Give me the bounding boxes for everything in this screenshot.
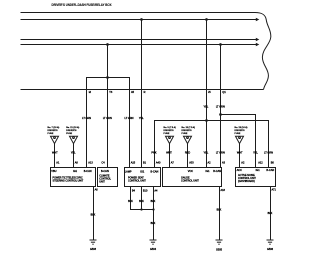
- svg-text:DRIVER'S UNDER–DASH FUSE/RELAY: DRIVER'S UNDER–DASH FUSE/RELAY BOX: [52, 2, 112, 7]
- fuse No.23 power source symbol: [235, 126, 248, 167]
- wire V4 LT GRN from bus4 to climate control unit: [107, 45, 109, 168]
- svg-text:STEERING CONTROL UNIT: STEERING CONTROL UNIT: [53, 179, 84, 182]
- svg-text:BLK: BLK: [217, 209, 222, 212]
- svg-text:VBU: VBU: [51, 170, 56, 173]
- svg-text:A13: A13: [88, 161, 93, 164]
- svg-text:WHT: WHT: [237, 151, 243, 154]
- svg-text:IG1: IG1: [140, 170, 145, 173]
- svg-text:No. 21 (10 A): No. 21 (10 A): [66, 126, 79, 129]
- node junction ground bus A4: [152, 208, 154, 210]
- wire ground column 1 from steering unit: [93, 187, 95, 240]
- wire branch from V2 at y121 to power seat pin and active noise unit: [155, 121, 269, 168]
- svg-text:FUSE: FUSE: [164, 133, 170, 135]
- wire ground column 4 from active noise unit: [270, 187, 272, 240]
- box U3 power seat control unit: [125, 168, 161, 187]
- box U2 climate control unit: [98, 168, 118, 187]
- svg-text:A33: A33: [189, 161, 194, 164]
- svg-text:LAMP: LAMP: [125, 170, 132, 173]
- wire bus 3: [21, 39, 257, 41]
- svg-text:LT GRN: LT GRN: [103, 117, 112, 120]
- svg-text:A40: A40: [156, 161, 161, 164]
- svg-text:FUSE: FUSE: [48, 133, 54, 135]
- svg-text:LT GRN: LT GRN: [125, 117, 134, 120]
- ground G504 symbol: [150, 240, 157, 244]
- svg-text:BLK: BLK: [128, 200, 133, 203]
- wire ground column 2 from power seat unit: [131, 187, 154, 240]
- svg-text:A71: A71: [272, 189, 277, 192]
- svg-text:No. 7 (10 A): No. 7 (10 A): [48, 126, 60, 129]
- svg-text:FUSE: FUSE: [235, 133, 241, 135]
- box U4 gauge control unit: [163, 168, 222, 187]
- wire V2 YEL from bus2 to gauge control unit: [206, 20, 208, 168]
- svg-text:YEL: YEL: [253, 151, 258, 154]
- svg-text:CONTROL UNIT: CONTROL UNIT: [181, 179, 199, 182]
- svg-text:YEL: YEL: [139, 117, 144, 120]
- svg-text:B-CAN: B-CAN: [266, 169, 274, 172]
- svg-text:B-CAN: B-CAN: [84, 170, 92, 173]
- arrow bus 3 continuation: [256, 38, 259, 41]
- svg-text:G503: G503: [90, 248, 97, 251]
- svg-text:M: M: [89, 91, 91, 94]
- box U1 power tilt/telescopic steering control unit: [51, 168, 96, 187]
- svg-text:B-CAN: B-CAN: [213, 170, 221, 173]
- wire distributor branch inside fuse box: [87, 78, 130, 168]
- svg-text:IG1: IG1: [73, 170, 78, 173]
- svg-text:DRIVER'S: DRIVER'S: [164, 130, 175, 132]
- svg-text:ACC: ACC: [237, 169, 242, 172]
- wire ground column 3 from gauge unit: [219, 187, 221, 240]
- node junction V4/bus4: [106, 43, 109, 46]
- node junction V3 branch: [219, 113, 222, 116]
- fuse No.15 power source symbol: [182, 126, 196, 167]
- wire V1 YEL from bus2 to power seat control unit: [141, 20, 143, 168]
- wire V3 LT GRN from bus4 to gauge control unit: [220, 45, 222, 168]
- fuse No.21 power source symbol: [66, 126, 79, 167]
- svg-text:UNIT: UNIT: [99, 180, 105, 183]
- wire bus 2 (battery feed): [21, 19, 257, 21]
- svg-text:BLK: BLK: [91, 214, 96, 217]
- box U5 active noise control unit: [236, 168, 276, 187]
- svg-text:IG1: IG1: [206, 170, 211, 173]
- svg-text:YEL: YEL: [204, 151, 209, 154]
- svg-text:RED: RED: [185, 151, 190, 154]
- svg-text:A18: A18: [221, 189, 226, 192]
- svg-text:BLK: BLK: [268, 212, 273, 215]
- svg-text:G504: G504: [150, 248, 157, 251]
- svg-text:BLK: BLK: [151, 200, 156, 203]
- svg-text:G506: G506: [267, 248, 274, 251]
- svg-text:DRIVER'S: DRIVER'S: [235, 130, 246, 132]
- svg-text:PNK: PNK: [151, 151, 156, 154]
- svg-text:(DASHBOARD): (DASHBOARD): [238, 180, 255, 183]
- arrow bus 2 continuation: [256, 18, 259, 21]
- svg-text:LT GRN: LT GRN: [216, 151, 225, 154]
- svg-text:LT GRN: LT GRN: [82, 117, 91, 120]
- svg-text:A12: A12: [258, 161, 263, 164]
- svg-text:B10: B10: [143, 190, 148, 193]
- node junction V3/bus4: [219, 43, 222, 46]
- svg-text:LT GRN: LT GRN: [264, 151, 273, 154]
- svg-text:No. 5 (7.5 A): No. 5 (7.5 A): [164, 126, 177, 129]
- svg-text:BLK: BLK: [139, 200, 144, 203]
- node junction V2/bus2: [205, 18, 208, 21]
- node junction V2 branch: [205, 119, 208, 122]
- fuse No.7 power source symbol: [48, 126, 60, 167]
- svg-text:CONTROL UNIT: CONTROL UNIT: [128, 180, 146, 183]
- node junction V1/bus2: [140, 18, 143, 21]
- svg-text:DRIVER'S: DRIVER'S: [48, 130, 59, 132]
- node junction distributor/V4: [106, 76, 109, 79]
- svg-text:A15: A15: [131, 161, 136, 164]
- svg-text:G505: G505: [216, 248, 223, 251]
- svg-text:No. 15 (7.5 A): No. 15 (7.5 A): [182, 126, 196, 129]
- svg-text:R: R: [144, 91, 146, 94]
- svg-text:WHT: WHT: [52, 151, 58, 154]
- wire bus 4 (B-CAN trunk): [21, 44, 257, 46]
- svg-text:VCC: VCC: [188, 170, 193, 173]
- ground G503 symbol: [90, 240, 97, 244]
- svg-text:FUSE: FUSE: [66, 133, 72, 135]
- svg-text:B-CAN: B-CAN: [151, 170, 159, 173]
- wire branch from V3 at y114.7 to active noise unit: [221, 115, 256, 168]
- svg-text:B-CAN: B-CAN: [101, 170, 109, 173]
- svg-text:DRIVER'S: DRIVER'S: [182, 130, 193, 132]
- svg-text:LT GRN: LT GRN: [216, 106, 225, 109]
- ground G506 symbol: [267, 240, 274, 244]
- arrow bus 4 continuation: [256, 43, 259, 46]
- fuse/relay box bottom border: [21, 89, 264, 91]
- svg-text:YEL: YEL: [71, 151, 76, 154]
- svg-text:BLK: BLK: [151, 222, 156, 225]
- svg-text:No. 23 (10 A): No. 23 (10 A): [235, 126, 248, 129]
- node junction ground bus B10: [140, 208, 142, 210]
- svg-text:IG1: IG1: [256, 169, 261, 172]
- svg-text:FUSE: FUSE: [182, 133, 188, 135]
- svg-text:WHT: WHT: [166, 151, 172, 154]
- svg-text:YEL: YEL: [204, 106, 209, 109]
- svg-text:DRIVER'S: DRIVER'S: [66, 130, 77, 132]
- fuse No.5 power source symbol: [164, 126, 177, 167]
- ground G505 symbol: [216, 240, 223, 244]
- fuse/relay box top border with wavy continuation right edge: [21, 13, 271, 90]
